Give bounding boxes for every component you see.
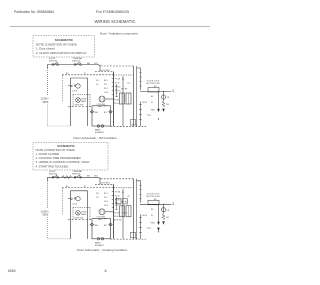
- svg-text:OR 4: OR 4: [104, 92, 108, 94]
- svg-text:RLY BD: RLY BD: [121, 89, 128, 91]
- svg-text:3. UPPER-IF COOKING CONTROL "H: 3. UPPER-IF COOKING CONTROL "HIGH": [36, 160, 90, 164]
- bottom bus dashed right: [111, 125, 147, 127]
- relay coil: [161, 95, 165, 99]
- junction dot B: [163, 91, 164, 92]
- schematic note box 2: [33, 143, 108, 171]
- EOC inner vertical wire: [122, 76, 124, 126]
- arrow B: [162, 109, 165, 112]
- elbow drop wire at x100: [99, 65, 101, 72]
- bake element terminal right: [109, 111, 111, 113]
- svg-text:K1: K1: [122, 79, 124, 81]
- svg-text:SWITCH: SWITCH: [49, 61, 57, 63]
- chassis double wire right: [136, 66, 138, 126]
- inner branch vertical wire: [87, 78, 89, 126]
- svg-text:BR: BR: [104, 112, 107, 114]
- svg-text:BK W: BK W: [143, 102, 148, 104]
- svg-text:GY: GY: [96, 84, 99, 86]
- svg-text:SWITCH: SWITCH: [72, 61, 80, 63]
- connector ticks into EOC: [112, 79, 114, 95]
- svg-text:2. CLOCK APPLICATION ON DISPLA: 2. CLOCK APPLICATION ON DISPLAY: [36, 51, 87, 55]
- svg-text:W 2: W 2: [104, 84, 107, 86]
- relay block A: [120, 93, 125, 104]
- bottom element symbol: [97, 125, 99, 127]
- bottom bus (dotted): [48, 125, 71, 127]
- svg-text:*DOOR LOCK: *DOOR LOCK: [147, 81, 160, 83]
- top bus dashed continuation: [98, 65, 134, 67]
- svg-text:LAMP: LAMP: [81, 100, 87, 103]
- left rail wire (dashed): [47, 65, 49, 69]
- svg-text:Note: *indicates component: Note: *indicates component: [100, 32, 138, 36]
- svg-text:BA: BA: [95, 111, 98, 114]
- svg-text:LIGHT SW: LIGHT SW: [74, 105, 83, 107]
- svg-text:K2: K2: [128, 83, 130, 85]
- dashed control line lower: [62, 74, 114, 76]
- svg-text:RD 3: RD 3: [104, 88, 108, 90]
- svg-text:4. START PAD TOUCHED: 4. START PAD TOUCHED: [36, 165, 69, 169]
- top bus wire: [48, 64, 99, 66]
- svg-text:BK 1: BK 1: [104, 80, 108, 82]
- right branch B wire: [163, 92, 165, 102]
- left branch vertical wire: [70, 78, 72, 126]
- arrow A: [157, 109, 160, 112]
- svg-text:P7 RD: P7 RD: [122, 213, 128, 215]
- schematic note box 1: [33, 36, 95, 58]
- svg-text:BU: BU: [167, 104, 170, 106]
- schematic 1 : oven schematic off condition: [41, 57, 176, 134]
- motor M: [76, 84, 80, 88]
- relay box: [148, 88, 159, 93]
- svg-text:6063: 6063: [8, 269, 16, 273]
- svg-text:OR: OR: [167, 97, 170, 99]
- oven lamp: [76, 98, 81, 103]
- EOC dashed top edge: [114, 74, 134, 76]
- top right corner wire: [137, 68, 141, 90]
- svg-text:P1 BK: P1 BK: [115, 79, 121, 81]
- fan wire: [105, 98, 114, 100]
- dashed drop wire x62.5: [62, 75, 64, 102]
- svg-text:60HZ: 60HZ: [43, 101, 49, 104]
- schematic 2 : oven schematic cooking condition: [41, 170, 176, 247]
- svg-text:*MDL: *MDL: [151, 110, 156, 112]
- svg-text:P2 W: P2 W: [115, 83, 120, 85]
- svg-text:VIO: VIO: [96, 80, 100, 82]
- svg-text:BK: BK: [151, 96, 154, 98]
- junction dot at bus: [136, 125, 137, 126]
- svg-text:MOTOR & SW: MOTOR & SW: [147, 83, 160, 85]
- relay contact box A (schematic 2): [116, 199, 121, 205]
- header rule: [10, 26, 210, 28]
- svg-text:W: W: [84, 73, 86, 75]
- svg-text:LOCK: LOCK: [72, 91, 78, 93]
- svg-text:P6 GY: P6 GY: [114, 103, 120, 105]
- lamp sub-box (dashed): [73, 95, 90, 107]
- latch switch: [68, 85, 70, 87]
- svg-text:Oven Schematic - Off Condition: Oven Schematic - Off Condition: [73, 136, 117, 140]
- junction dot A: [158, 91, 159, 92]
- right branch A wire: [158, 92, 160, 110]
- svg-text:WIRING SCHEMATIC: WIRING SCHEMATIC: [94, 19, 135, 24]
- svg-text:L2: L2: [172, 90, 174, 92]
- svg-text:*TOD: *TOD: [147, 115, 152, 117]
- cooling fan: [99, 96, 105, 102]
- element box: [92, 106, 111, 126]
- extra arrow (schematic 2): [157, 228, 160, 231]
- svg-text:Publication No: 5995A5884: Publication No: 5995A5884: [14, 10, 54, 14]
- heater zigzag: [162, 101, 165, 107]
- svg-text:6: 6: [105, 269, 107, 273]
- chassis double wire left: [133, 66, 135, 126]
- relay wire: [140, 91, 170, 93]
- relay block B: [126, 93, 131, 104]
- EOC board left edge wire: [113, 72, 115, 127]
- svg-text:BK W RD: BK W RD: [114, 220, 122, 222]
- left rail lower (dotted): [47, 105, 49, 127]
- svg-text:Oven Schematic - Cooking Condi: Oven Schematic - Cooking Condition: [77, 248, 128, 252]
- plug pin strip: [140, 102, 142, 127]
- svg-text:P5 BU: P5 BU: [114, 100, 120, 102]
- svg-text:For FGMB3065CB: For FGMB3065CB: [96, 9, 129, 14]
- connector ladder: [116, 84, 118, 97]
- closed latch switch on bus (schematic 2): [62, 176, 72, 179]
- dashed control line upper: [95, 71, 114, 73]
- relay contact box B (schematic 2): [123, 199, 128, 205]
- svg-text:W: W: [151, 102, 153, 104]
- branch top wire: [71, 77, 88, 79]
- dashed line under lamp box: [68, 106, 92, 108]
- bake element terminal left: [91, 111, 93, 113]
- connector block above bus: [131, 120, 136, 126]
- svg-text:RD: RD: [95, 63, 99, 65]
- svg-text:P4 OR: P4 OR: [115, 91, 121, 93]
- svg-text:ELEMENT: ELEMENT: [95, 132, 105, 134]
